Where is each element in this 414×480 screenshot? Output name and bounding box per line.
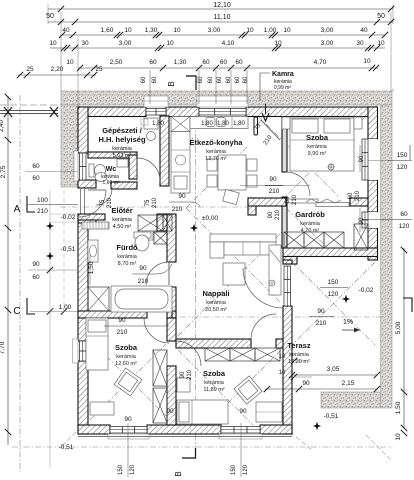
svg-text:Terasz: Terasz bbox=[287, 341, 310, 350]
svg-text:210: 210 bbox=[37, 208, 48, 215]
wall exterior bottom segment 3 bbox=[260, 425, 292, 434]
svg-text:210: 210 bbox=[355, 190, 361, 201]
svg-text:90: 90 bbox=[166, 408, 174, 415]
svg-text:60: 60 bbox=[243, 76, 249, 83]
svg-text:10: 10 bbox=[66, 59, 74, 66]
nightstand szoba3 bbox=[177, 378, 190, 392]
marker V kamra bbox=[262, 113, 269, 121]
dimension row4 bbox=[50, 47, 385, 49]
svg-text:60: 60 bbox=[235, 59, 243, 66]
svg-text:Kamra: Kamra bbox=[272, 71, 294, 78]
wire roof line szoba3 diag2 bbox=[206, 350, 281, 425]
svg-text:kerámia: kerámia bbox=[117, 254, 138, 260]
dimension row6 left bbox=[18, 74, 96, 76]
window left wall wc bbox=[80, 153, 87, 180]
svg-text:30: 30 bbox=[81, 40, 89, 47]
furdo toilet bbox=[134, 232, 151, 238]
dimension 3,05 terrace bbox=[292, 374, 377, 376]
svg-text:90: 90 bbox=[124, 416, 132, 423]
wall terrace left upper stub bbox=[283, 260, 292, 264]
svg-text:1,60 m²: 1,60 m² bbox=[103, 180, 120, 186]
svg-text:10: 10 bbox=[274, 40, 282, 47]
svg-text:60: 60 bbox=[152, 76, 158, 83]
door nappali-szoba3 arc bbox=[251, 314, 276, 339]
svg-text:50: 50 bbox=[46, 13, 54, 20]
fence top-left bbox=[0, 110, 58, 112]
svg-text:2,50: 2,50 bbox=[110, 59, 123, 66]
svg-text:75: 75 bbox=[145, 199, 151, 206]
svg-text:10: 10 bbox=[377, 40, 385, 47]
wardrobe szoba2 bbox=[153, 350, 167, 386]
wire section line B bbox=[195, 96, 197, 452]
svg-text:10: 10 bbox=[279, 370, 286, 376]
svg-text:1,30: 1,30 bbox=[145, 27, 158, 34]
svg-text:90: 90 bbox=[32, 261, 40, 268]
wall gepeszeti-kitchen divider bbox=[160, 116, 169, 186]
dimension row3 bbox=[62, 34, 385, 36]
svg-text:kerámia: kerámia bbox=[112, 146, 133, 152]
svg-text:1,00: 1,00 bbox=[264, 27, 277, 34]
svg-text:210: 210 bbox=[275, 209, 281, 220]
wire roof line szoba2 diag1 bbox=[90, 340, 166, 416]
window top wall 2 bbox=[197, 96, 248, 107]
svg-text:20,50 m²: 20,50 m² bbox=[205, 307, 227, 313]
sliding door gardrob bbox=[287, 199, 318, 203]
door kamra diagonal leaf bbox=[261, 120, 280, 140]
wire section line A horizontal bbox=[60, 206, 250, 208]
svg-text:kerámia: kerámia bbox=[112, 217, 133, 223]
svg-text:90: 90 bbox=[118, 317, 126, 324]
boiler gepeszeti bbox=[144, 118, 158, 129]
wall exterior top segment 2 bbox=[166, 107, 199, 117]
svg-text:150: 150 bbox=[328, 279, 339, 286]
svg-text:75: 75 bbox=[100, 199, 106, 206]
wall exterior left segment 1 bbox=[78, 107, 88, 153]
wire roof line kitchen-nappali diag bbox=[186, 208, 280, 302]
svg-text:Nappali: Nappali bbox=[202, 289, 229, 298]
wall terrace left lower bbox=[283, 306, 292, 434]
wall exterior right segment 2 bbox=[368, 180, 378, 212]
svg-text:60: 60 bbox=[32, 175, 40, 182]
svg-text:210: 210 bbox=[117, 329, 128, 336]
kitchen counter left bbox=[171, 132, 190, 194]
wire thin line left x50 bbox=[49, 190, 51, 468]
svg-text:40: 40 bbox=[360, 27, 368, 34]
window left wall szoba2 bbox=[80, 341, 87, 361]
svg-text:2,40: 2,40 bbox=[0, 120, 5, 132]
svg-text:120: 120 bbox=[243, 464, 249, 475]
dining table bbox=[218, 155, 246, 190]
svg-text:60: 60 bbox=[32, 163, 40, 170]
svg-text:210: 210 bbox=[152, 197, 158, 208]
svg-text:3,00: 3,00 bbox=[321, 27, 334, 34]
svg-text:210: 210 bbox=[269, 188, 280, 195]
door entrance arc bbox=[79, 190, 106, 217]
svg-text:90: 90 bbox=[317, 308, 325, 315]
svg-text:2,15: 2,15 bbox=[342, 380, 355, 387]
svg-text:10: 10 bbox=[246, 27, 254, 34]
svg-text:120: 120 bbox=[399, 223, 410, 230]
svg-text:60: 60 bbox=[202, 59, 210, 66]
wire roof hip top-left bbox=[61, 91, 80, 107]
svg-text:60: 60 bbox=[400, 211, 408, 218]
window top wall 1 bbox=[144, 96, 168, 107]
window bottom wall szoba3 bbox=[221, 427, 260, 434]
svg-text:A: A bbox=[14, 204, 21, 215]
svg-text:90: 90 bbox=[269, 176, 277, 183]
door terrace arc bbox=[243, 268, 283, 308]
svg-text:60: 60 bbox=[32, 274, 40, 281]
coffee table nappali bbox=[223, 263, 245, 285]
svg-text:210: 210 bbox=[292, 194, 298, 205]
svg-text:1,80: 1,80 bbox=[201, 121, 213, 127]
dimension row2 bbox=[48, 21, 393, 23]
furdo basin cabinet bbox=[88, 240, 98, 262]
svg-text:B: B bbox=[174, 471, 183, 476]
bathtub bbox=[111, 286, 172, 312]
dimension 90 2,15 terrace bbox=[265, 388, 377, 390]
svg-text:120: 120 bbox=[328, 291, 339, 298]
window terrace door bbox=[284, 266, 291, 306]
dimension 5,00 terrace right bbox=[403, 248, 405, 394]
svg-text:1,30: 1,30 bbox=[174, 59, 187, 66]
bed szoba3 bbox=[177, 400, 228, 424]
wall exterior top segment 1 bbox=[78, 107, 146, 117]
svg-text:5,63 m²: 5,63 m² bbox=[113, 153, 132, 159]
svg-text:90: 90 bbox=[239, 408, 247, 415]
svg-text:kerámia: kerámia bbox=[206, 300, 227, 306]
armchair szoba2 bbox=[114, 368, 142, 396]
wc toilet bbox=[89, 164, 94, 177]
svg-text:90: 90 bbox=[139, 265, 147, 272]
door wc arc bbox=[96, 189, 112, 205]
wire roof line terrace diag1 bbox=[292, 262, 375, 345]
wire dashed line left x64 bbox=[63, 182, 65, 311]
svg-text:0,99 m²: 0,99 m² bbox=[274, 85, 291, 91]
svg-text:60: 60 bbox=[149, 59, 157, 66]
svg-text:2,20: 2,20 bbox=[51, 66, 64, 73]
svg-text:12,10: 12,10 bbox=[213, 2, 231, 9]
symbol outlet szoba1 bbox=[328, 164, 334, 170]
svg-text:Fürdő: Fürdő bbox=[116, 243, 138, 252]
wire roof line szoba1 diag2 bbox=[286, 116, 366, 196]
svg-text:kerámia: kerámia bbox=[300, 221, 321, 227]
svg-text:Gardrób: Gardrób bbox=[295, 210, 325, 219]
svg-text:1,50: 1,50 bbox=[88, 261, 95, 274]
svg-text:kerámia: kerámia bbox=[116, 354, 137, 360]
wall gardrob left thin bbox=[282, 197, 287, 248]
bed szoba1 bbox=[290, 118, 354, 171]
svg-text:210: 210 bbox=[187, 369, 193, 380]
svg-text:210: 210 bbox=[138, 278, 149, 285]
svg-text:Szoba: Szoba bbox=[203, 369, 226, 378]
wall szoba2-szoba3 divider bbox=[167, 318, 176, 341]
window right wall gardrob bbox=[368, 212, 378, 228]
wire roof hip top-right bbox=[376, 89, 394, 106]
svg-text:-0,51: -0,51 bbox=[324, 413, 339, 420]
svg-text:60: 60 bbox=[141, 76, 147, 83]
svg-text:60: 60 bbox=[285, 196, 291, 203]
wall furdo right lower bbox=[167, 287, 176, 318]
wire dashed line top-left bbox=[0, 104, 61, 106]
svg-text:10: 10 bbox=[279, 354, 286, 360]
svg-text:9,90 m²: 9,90 m² bbox=[308, 151, 327, 157]
svg-text:kerámia: kerámia bbox=[204, 380, 225, 386]
wire roof line gardrob diag bbox=[286, 208, 330, 250]
wall wc top bbox=[88, 152, 137, 158]
svg-text:3,00: 3,00 bbox=[208, 27, 221, 34]
svg-text:210: 210 bbox=[316, 320, 327, 327]
door szoba3 arc bbox=[176, 341, 201, 366]
cabinet eloter bbox=[138, 215, 163, 231]
wall gardrob bottom bbox=[283, 248, 378, 257]
eaves band right bbox=[381, 105, 393, 408]
svg-text:Szoba: Szoba bbox=[115, 343, 138, 352]
tv bench nappali bbox=[269, 245, 281, 295]
eaves band top bbox=[61, 91, 392, 105]
svg-text:1,50: 1,50 bbox=[395, 401, 402, 414]
wire roof line kitchen diag bbox=[186, 146, 248, 208]
svg-text:10: 10 bbox=[173, 27, 181, 34]
svg-text:150: 150 bbox=[231, 464, 237, 475]
svg-text:-0,51: -0,51 bbox=[59, 444, 74, 451]
wall szoba1-gardrob bbox=[248, 198, 286, 206]
svg-text:Előtér: Előtér bbox=[111, 206, 132, 215]
dimension row5 bbox=[78, 67, 378, 69]
wc basin bbox=[117, 159, 128, 167]
svg-text:10: 10 bbox=[124, 27, 132, 34]
wall kamra thin bbox=[254, 117, 258, 135]
svg-text:4,50 m²: 4,50 m² bbox=[113, 224, 132, 230]
svg-text:60: 60 bbox=[208, 76, 214, 83]
svg-text:100: 100 bbox=[37, 197, 48, 204]
kitchen fridge bbox=[171, 117, 190, 132]
wire extension lines furdo wall bbox=[50, 213, 78, 215]
dresser szoba3 bbox=[256, 402, 282, 422]
wire roof line szoba2 diag2 bbox=[90, 344, 166, 420]
svg-text:90: 90 bbox=[268, 211, 274, 218]
svg-text:60: 60 bbox=[220, 59, 228, 66]
svg-text:10: 10 bbox=[166, 40, 174, 47]
door furdo arc bbox=[146, 262, 169, 285]
eaves band terrace bottom bbox=[321, 392, 381, 408]
svg-text:10: 10 bbox=[395, 433, 402, 441]
svg-text:Szoba: Szoba bbox=[306, 133, 329, 142]
svg-text:-0,02: -0,02 bbox=[359, 287, 374, 294]
kitchen counter top run bbox=[190, 117, 248, 129]
svg-text:4,10: 4,10 bbox=[222, 40, 235, 47]
door szoba2 arc bbox=[144, 318, 169, 343]
svg-text:4,70: 4,70 bbox=[314, 59, 327, 66]
wall exterior right segment 3 bbox=[368, 228, 378, 260]
svg-text:150: 150 bbox=[118, 464, 124, 475]
svg-text:4,20 m²: 4,20 m² bbox=[301, 228, 320, 234]
svg-text:10: 10 bbox=[49, 40, 57, 47]
svg-text:10: 10 bbox=[363, 58, 371, 65]
svg-text:C: C bbox=[13, 306, 20, 317]
wall exterior left segment 3 bbox=[78, 361, 88, 434]
shower tray bbox=[88, 287, 109, 311]
svg-text:12,76 m²: 12,76 m² bbox=[205, 156, 227, 162]
svg-text:5,00: 5,00 bbox=[395, 321, 402, 334]
svg-text:2,75: 2,75 bbox=[0, 165, 7, 178]
svg-text:60: 60 bbox=[348, 192, 354, 199]
wire extension lines top dims bbox=[60, 12, 62, 91]
svg-text:210: 210 bbox=[172, 206, 183, 213]
window right wall szoba1 bbox=[368, 139, 378, 180]
door szoba1 arc bbox=[286, 172, 310, 196]
svg-text:90: 90 bbox=[180, 371, 186, 378]
svg-text:7,70: 7,70 bbox=[0, 341, 6, 354]
svg-text:3,00: 3,00 bbox=[321, 40, 334, 47]
svg-text:3,05: 3,05 bbox=[327, 366, 340, 373]
wire roof ridge horizontal bbox=[180, 316, 390, 318]
svg-text:12,60 m²: 12,60 m² bbox=[115, 361, 137, 367]
svg-text:1,80: 1,80 bbox=[233, 121, 245, 127]
svg-text:11,10: 11,10 bbox=[214, 14, 231, 21]
slab edge below bottom wall bbox=[78, 436, 292, 438]
wall exterior bottom segment 1 bbox=[78, 425, 110, 434]
dimension row1 12,10 bbox=[48, 8, 393, 10]
svg-text:-0,51: -0,51 bbox=[61, 246, 76, 253]
svg-text:8,70 m²: 8,70 m² bbox=[118, 261, 137, 267]
furdo washer bbox=[154, 232, 167, 244]
wire roof hip bottom-left bbox=[62, 428, 80, 446]
sofa nappali bbox=[210, 234, 276, 242]
desk szoba2 bbox=[90, 402, 114, 415]
wall exterior top segment 3 bbox=[246, 107, 377, 117]
wall nappali-szoba3 bbox=[176, 339, 251, 348]
armchair szoba3 bbox=[234, 376, 262, 404]
svg-text:25: 25 bbox=[26, 66, 34, 73]
wire roof line szoba1 diag1 bbox=[258, 116, 338, 196]
svg-text:-0,02: -0,02 bbox=[61, 214, 76, 221]
radiator eloter bbox=[82, 222, 109, 229]
wall furdo bottom bbox=[78, 311, 147, 318]
wire roof line szoba3 diag1 bbox=[178, 350, 253, 425]
wire roof line nappali diag2 bbox=[178, 232, 282, 336]
wire dashed eaves bottom line bbox=[12, 446, 392, 448]
svg-text:1,60: 1,60 bbox=[101, 27, 114, 34]
svg-text:120: 120 bbox=[397, 164, 408, 171]
wall wc right bbox=[129, 155, 137, 179]
wall exterior bottom segment 2 bbox=[147, 425, 221, 434]
svg-text:60: 60 bbox=[217, 76, 223, 83]
window sill labels 1,80 bbox=[141, 119, 148, 125]
wardrobe szoba3 bbox=[205, 348, 230, 361]
svg-text:120: 120 bbox=[130, 464, 136, 475]
eaves band left bbox=[61, 105, 78, 187]
wire roof hip bottom-right bbox=[290, 432, 312, 450]
svg-text:25: 25 bbox=[95, 66, 103, 73]
window bottom wall szoba2 bbox=[110, 427, 147, 434]
svg-text:Wc: Wc bbox=[106, 166, 117, 173]
svg-text:40: 40 bbox=[62, 27, 70, 34]
svg-text:12,20 m²: 12,20 m² bbox=[288, 359, 310, 365]
svg-text:1,80: 1,80 bbox=[152, 121, 164, 127]
wire roof line terrace diag2 bbox=[292, 262, 375, 345]
svg-text:B: B bbox=[167, 81, 176, 86]
svg-text:kerámia: kerámia bbox=[289, 352, 310, 358]
svg-text:1,80: 1,80 bbox=[217, 121, 229, 127]
wall exterior left segment 2 bbox=[78, 216, 96, 223]
svg-text:50: 50 bbox=[377, 13, 385, 20]
svg-text:10: 10 bbox=[283, 27, 291, 34]
svg-text:±0,00: ±0,00 bbox=[202, 215, 219, 222]
svg-text:150: 150 bbox=[397, 152, 408, 159]
svg-text:11,89 m²: 11,89 m² bbox=[203, 387, 224, 393]
wire roof hip terrace corner bbox=[366, 435, 390, 459]
svg-text:30: 30 bbox=[356, 40, 364, 47]
bed szoba2 bbox=[86, 318, 108, 370]
wall wc bottom bbox=[111, 182, 137, 189]
wardrobe gardrob bbox=[284, 232, 304, 248]
wall eloter-furdo right bbox=[167, 214, 176, 262]
door opening entrance jambs bbox=[80, 189, 82, 215]
svg-text:kerámia: kerámia bbox=[307, 144, 328, 150]
svg-text:1%: 1% bbox=[343, 319, 353, 326]
svg-text:Étkező-konyha: Étkező-konyha bbox=[190, 138, 244, 147]
svg-text:H.H. helyiség: H.H. helyiség bbox=[98, 135, 146, 144]
svg-text:90: 90 bbox=[178, 193, 186, 200]
svg-text:60: 60 bbox=[235, 76, 241, 83]
svg-text:3,00: 3,00 bbox=[119, 40, 132, 47]
dimension vertical far left bbox=[7, 96, 9, 445]
wall szoba1 left thin bbox=[282, 117, 287, 172]
wire dash-dot property line left bbox=[19, 95, 21, 472]
svg-text:Gépészeti /: Gépészeti / bbox=[102, 126, 143, 135]
svg-text:90: 90 bbox=[302, 380, 310, 387]
door gepeszeti arc bbox=[137, 158, 160, 181]
svg-text:kerámia: kerámia bbox=[206, 149, 227, 155]
wall exterior right segment 1 bbox=[368, 107, 378, 139]
